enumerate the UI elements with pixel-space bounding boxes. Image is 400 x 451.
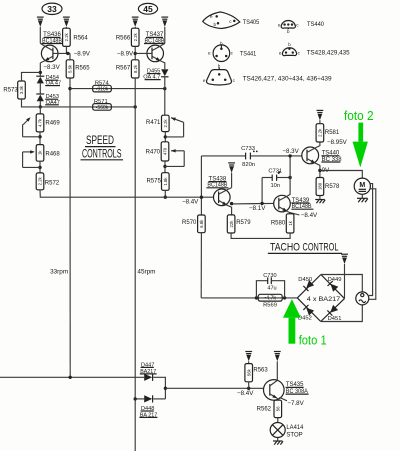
svg-text:10n: 10n [270, 183, 280, 189]
svg-text:8.2k: 8.2k [133, 64, 138, 73]
svg-text:R569: R569 [263, 303, 277, 309]
svg-text:6.8k: 6.8k [199, 219, 204, 228]
svg-text:180: 180 [318, 182, 323, 190]
svg-text:R471: R471 [146, 120, 161, 126]
svg-text:R564: R564 [73, 36, 88, 42]
svg-text:3.3k: 3.3k [19, 85, 24, 94]
svg-text:−8.1V: −8.1V [249, 205, 266, 212]
svg-text:STOP: STOP [286, 433, 302, 439]
svg-text:2.2k: 2.2k [318, 128, 323, 137]
svg-text:R567: R567 [116, 65, 131, 71]
svg-text:−8.4V: −8.4V [237, 390, 254, 397]
svg-text:R566: R566 [116, 36, 131, 42]
svg-text:−8.3V: −8.3V [282, 148, 299, 155]
svg-text:45rpm: 45rpm [137, 268, 155, 275]
svg-text:R581: R581 [325, 130, 340, 136]
svg-text:−8.3V: −8.3V [43, 64, 60, 71]
svg-text:45: 45 [143, 4, 153, 14]
svg-text:foto 2: foto 2 [344, 109, 374, 123]
svg-text:C730: C730 [263, 273, 276, 279]
svg-text:2.2k: 2.2k [64, 32, 69, 41]
svg-text:TS426,427, 430÷434, 436÷439: TS426,427, 430÷434, 436÷439 [243, 75, 332, 82]
svg-text:2.2k: 2.2k [163, 118, 168, 127]
svg-text:1.8k: 1.8k [163, 177, 168, 186]
svg-text:b: b [287, 29, 290, 34]
svg-text:R575: R575 [146, 179, 161, 185]
svg-text:820n: 820n [242, 162, 255, 168]
svg-text:−8.4V: −8.4V [301, 212, 318, 219]
svg-text:2.2k: 2.2k [38, 176, 43, 185]
svg-text:5.6k: 5.6k [68, 64, 73, 73]
svg-text:R579: R579 [236, 220, 251, 226]
svg-text:R573: R573 [3, 87, 18, 93]
svg-text:SPEED: SPEED [86, 133, 114, 147]
svg-text:TS428,429,435: TS428,429,435 [307, 50, 350, 57]
svg-text:b: b [213, 22, 216, 27]
svg-text:R565: R565 [75, 65, 90, 71]
svg-text:56k: 56k [246, 368, 251, 376]
svg-text:R580: R580 [271, 220, 286, 226]
svg-text:470: 470 [163, 147, 168, 155]
svg-text:4.7k: 4.7k [38, 118, 43, 127]
svg-text:−8.9V: −8.9V [117, 51, 134, 58]
svg-text:D449: D449 [328, 277, 342, 283]
svg-text:D450: D450 [298, 277, 312, 283]
svg-text:47u: 47u [267, 285, 276, 291]
svg-text:R468: R468 [45, 152, 60, 158]
svg-text:R570: R570 [182, 220, 197, 226]
svg-text:TS441: TS441 [240, 50, 257, 57]
svg-text:R470: R470 [146, 149, 161, 155]
svg-text:e: e [210, 14, 213, 19]
svg-text:−8.95V: −8.95V [327, 139, 348, 146]
svg-text:LA414: LA414 [286, 425, 304, 431]
svg-text:22k: 22k [229, 220, 234, 228]
svg-text:C733: C733 [241, 146, 255, 152]
svg-text:56: 56 [276, 406, 281, 411]
svg-text:2.2k: 2.2k [133, 32, 138, 41]
svg-text:R469: R469 [45, 120, 60, 126]
svg-text:e: e [208, 51, 211, 56]
svg-text:−7.8V: −7.8V [287, 400, 304, 407]
svg-text:CONTROLS: CONTROLS [82, 146, 122, 160]
svg-text:TS405: TS405 [243, 19, 260, 26]
svg-text:33rpm: 33rpm [50, 268, 68, 275]
svg-text:R578: R578 [325, 184, 340, 190]
svg-text:•910k: •910k [96, 87, 109, 93]
svg-text:•560k: •560k [96, 105, 109, 111]
svg-text:e: e [279, 51, 282, 56]
svg-text:4 x BA217: 4 x BA217 [307, 296, 341, 303]
svg-text:−8.9V: −8.9V [74, 51, 91, 58]
svg-text:R562: R562 [257, 406, 272, 412]
svg-text:e: e [203, 78, 206, 83]
svg-text:R563: R563 [253, 367, 268, 373]
svg-text:e: e [278, 22, 281, 27]
svg-text:TACHO: TACHO [270, 242, 300, 254]
svg-text:33: 33 [47, 4, 57, 14]
svg-text:CONTROL: CONTROL [303, 242, 339, 254]
svg-text:b: b [288, 42, 291, 47]
svg-text:b: b [220, 41, 223, 46]
svg-text:foto 1: foto 1 [299, 334, 327, 348]
svg-text:M: M [359, 182, 365, 189]
svg-text:−8.4V: −8.4V [182, 199, 199, 206]
svg-text:R572: R572 [45, 180, 60, 186]
svg-text:•4.7k: •4.7k [264, 296, 276, 302]
svg-text:TS440: TS440 [307, 21, 324, 28]
